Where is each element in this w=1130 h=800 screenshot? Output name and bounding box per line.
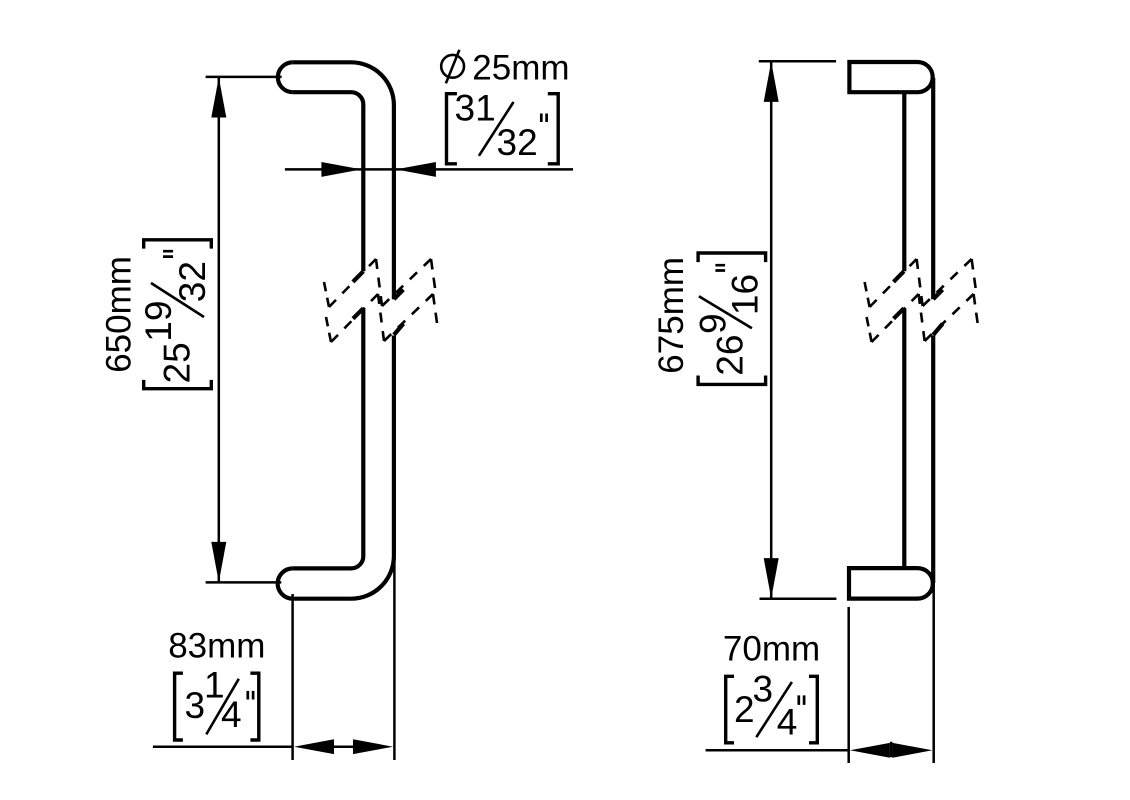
dim line 675: [770, 62, 773, 598]
ext line bottom 650: [206, 581, 282, 584]
dimension 650mm: [100, 77, 282, 583]
right view break symbol: [865, 259, 978, 342]
svg-text:4: 4: [777, 701, 798, 742]
break dashed zigzag lower right: [867, 294, 978, 342]
arrow left-pointing 25: [396, 162, 436, 177]
label bracket 2 3/4: [726, 669, 818, 743]
svg-text:25mm: 25mm: [472, 48, 569, 87]
label bracket 25 19/32 rotated: [138, 240, 213, 389]
left handle inner lower line and bend: [293, 308, 364, 568]
dim tail 70: [706, 749, 849, 752]
ext line top 675: [759, 60, 836, 63]
arrow right 83: [353, 739, 393, 754]
ext line right 70: [932, 570, 935, 763]
arrow down 650: [211, 542, 226, 582]
svg-text:16: 16: [724, 274, 765, 315]
svg-text:32: 32: [497, 122, 538, 163]
ext line left 70: [847, 607, 850, 763]
dimension 675mm: [652, 61, 836, 598]
left handle top grip end cap: [278, 62, 293, 92]
diameter symbol slash: [446, 50, 460, 84]
left view break symbol: [324, 259, 437, 342]
arrow up 675: [764, 62, 779, 102]
dimension 83mm: [153, 558, 395, 761]
arrow left 70: [850, 743, 890, 758]
label bracket 26 9/16 rotated: [692, 253, 765, 384]
svg-text:19: 19: [138, 301, 179, 342]
svg-text:9: 9: [692, 313, 733, 334]
break stubs left (thick): [353, 271, 404, 335]
arrow right 70: [893, 743, 933, 758]
arrow down 675: [764, 558, 779, 598]
dim line 25: [285, 168, 573, 171]
left handle inner top line and bend: [293, 92, 364, 271]
svg-text:675mm: 675mm: [652, 257, 691, 374]
svg-text:26: 26: [709, 335, 750, 376]
left handle outer lower line and bend: [293, 336, 394, 599]
ext line top 650: [206, 76, 282, 79]
ext line right 83: [393, 558, 396, 761]
right handle inner line lower: [902, 308, 906, 568]
ext line bottom 675: [760, 597, 837, 600]
right handle outer line lower: [931, 336, 935, 584]
svg-text:4: 4: [221, 694, 242, 735]
svg-text:25: 25: [157, 342, 198, 383]
break dashed zigzag lower left: [326, 294, 437, 342]
svg-text:2: 2: [734, 689, 755, 730]
svg-text:32: 32: [172, 261, 213, 302]
left handle outer top line and bend: [293, 62, 394, 299]
diameter symbol circle: [441, 55, 464, 78]
svg-text:83mm: 83mm: [168, 626, 265, 665]
right handle bottom mounting cap: [849, 568, 933, 599]
right handle outer line upper: [931, 78, 935, 299]
break dashed zigzag upper right: [865, 259, 976, 307]
right handle inner line upper: [902, 92, 906, 271]
dimension Ø25mm: [285, 48, 573, 177]
arrow right-pointing 25: [321, 162, 361, 177]
label bracket 31/32: [447, 88, 559, 164]
ext line left 83: [291, 594, 294, 760]
dim line 650: [218, 78, 221, 582]
dim tail 83: [153, 745, 293, 748]
dimension 70mm: [706, 570, 934, 763]
left view: pull handle tube outline: [278, 62, 394, 598]
svg-text:31: 31: [455, 88, 496, 129]
svg-text:3: 3: [185, 685, 206, 726]
right view: handle side profile: [849, 62, 933, 599]
mid tick 70: [890, 742, 893, 758]
arrow up 650: [211, 77, 226, 117]
svg-text:3: 3: [753, 669, 774, 710]
svg-text:70mm: 70mm: [723, 629, 820, 668]
break dashed zigzag upper left: [324, 259, 435, 307]
break stubs right (thick): [894, 271, 943, 335]
right handle top mounting cap: [849, 62, 932, 92]
mid connector 83: [334, 745, 353, 748]
left handle bottom grip end cap: [278, 568, 293, 598]
arrow left 83: [294, 739, 334, 754]
label bracket 3 1/4: [175, 665, 259, 741]
svg-text:650mm: 650mm: [100, 256, 139, 373]
